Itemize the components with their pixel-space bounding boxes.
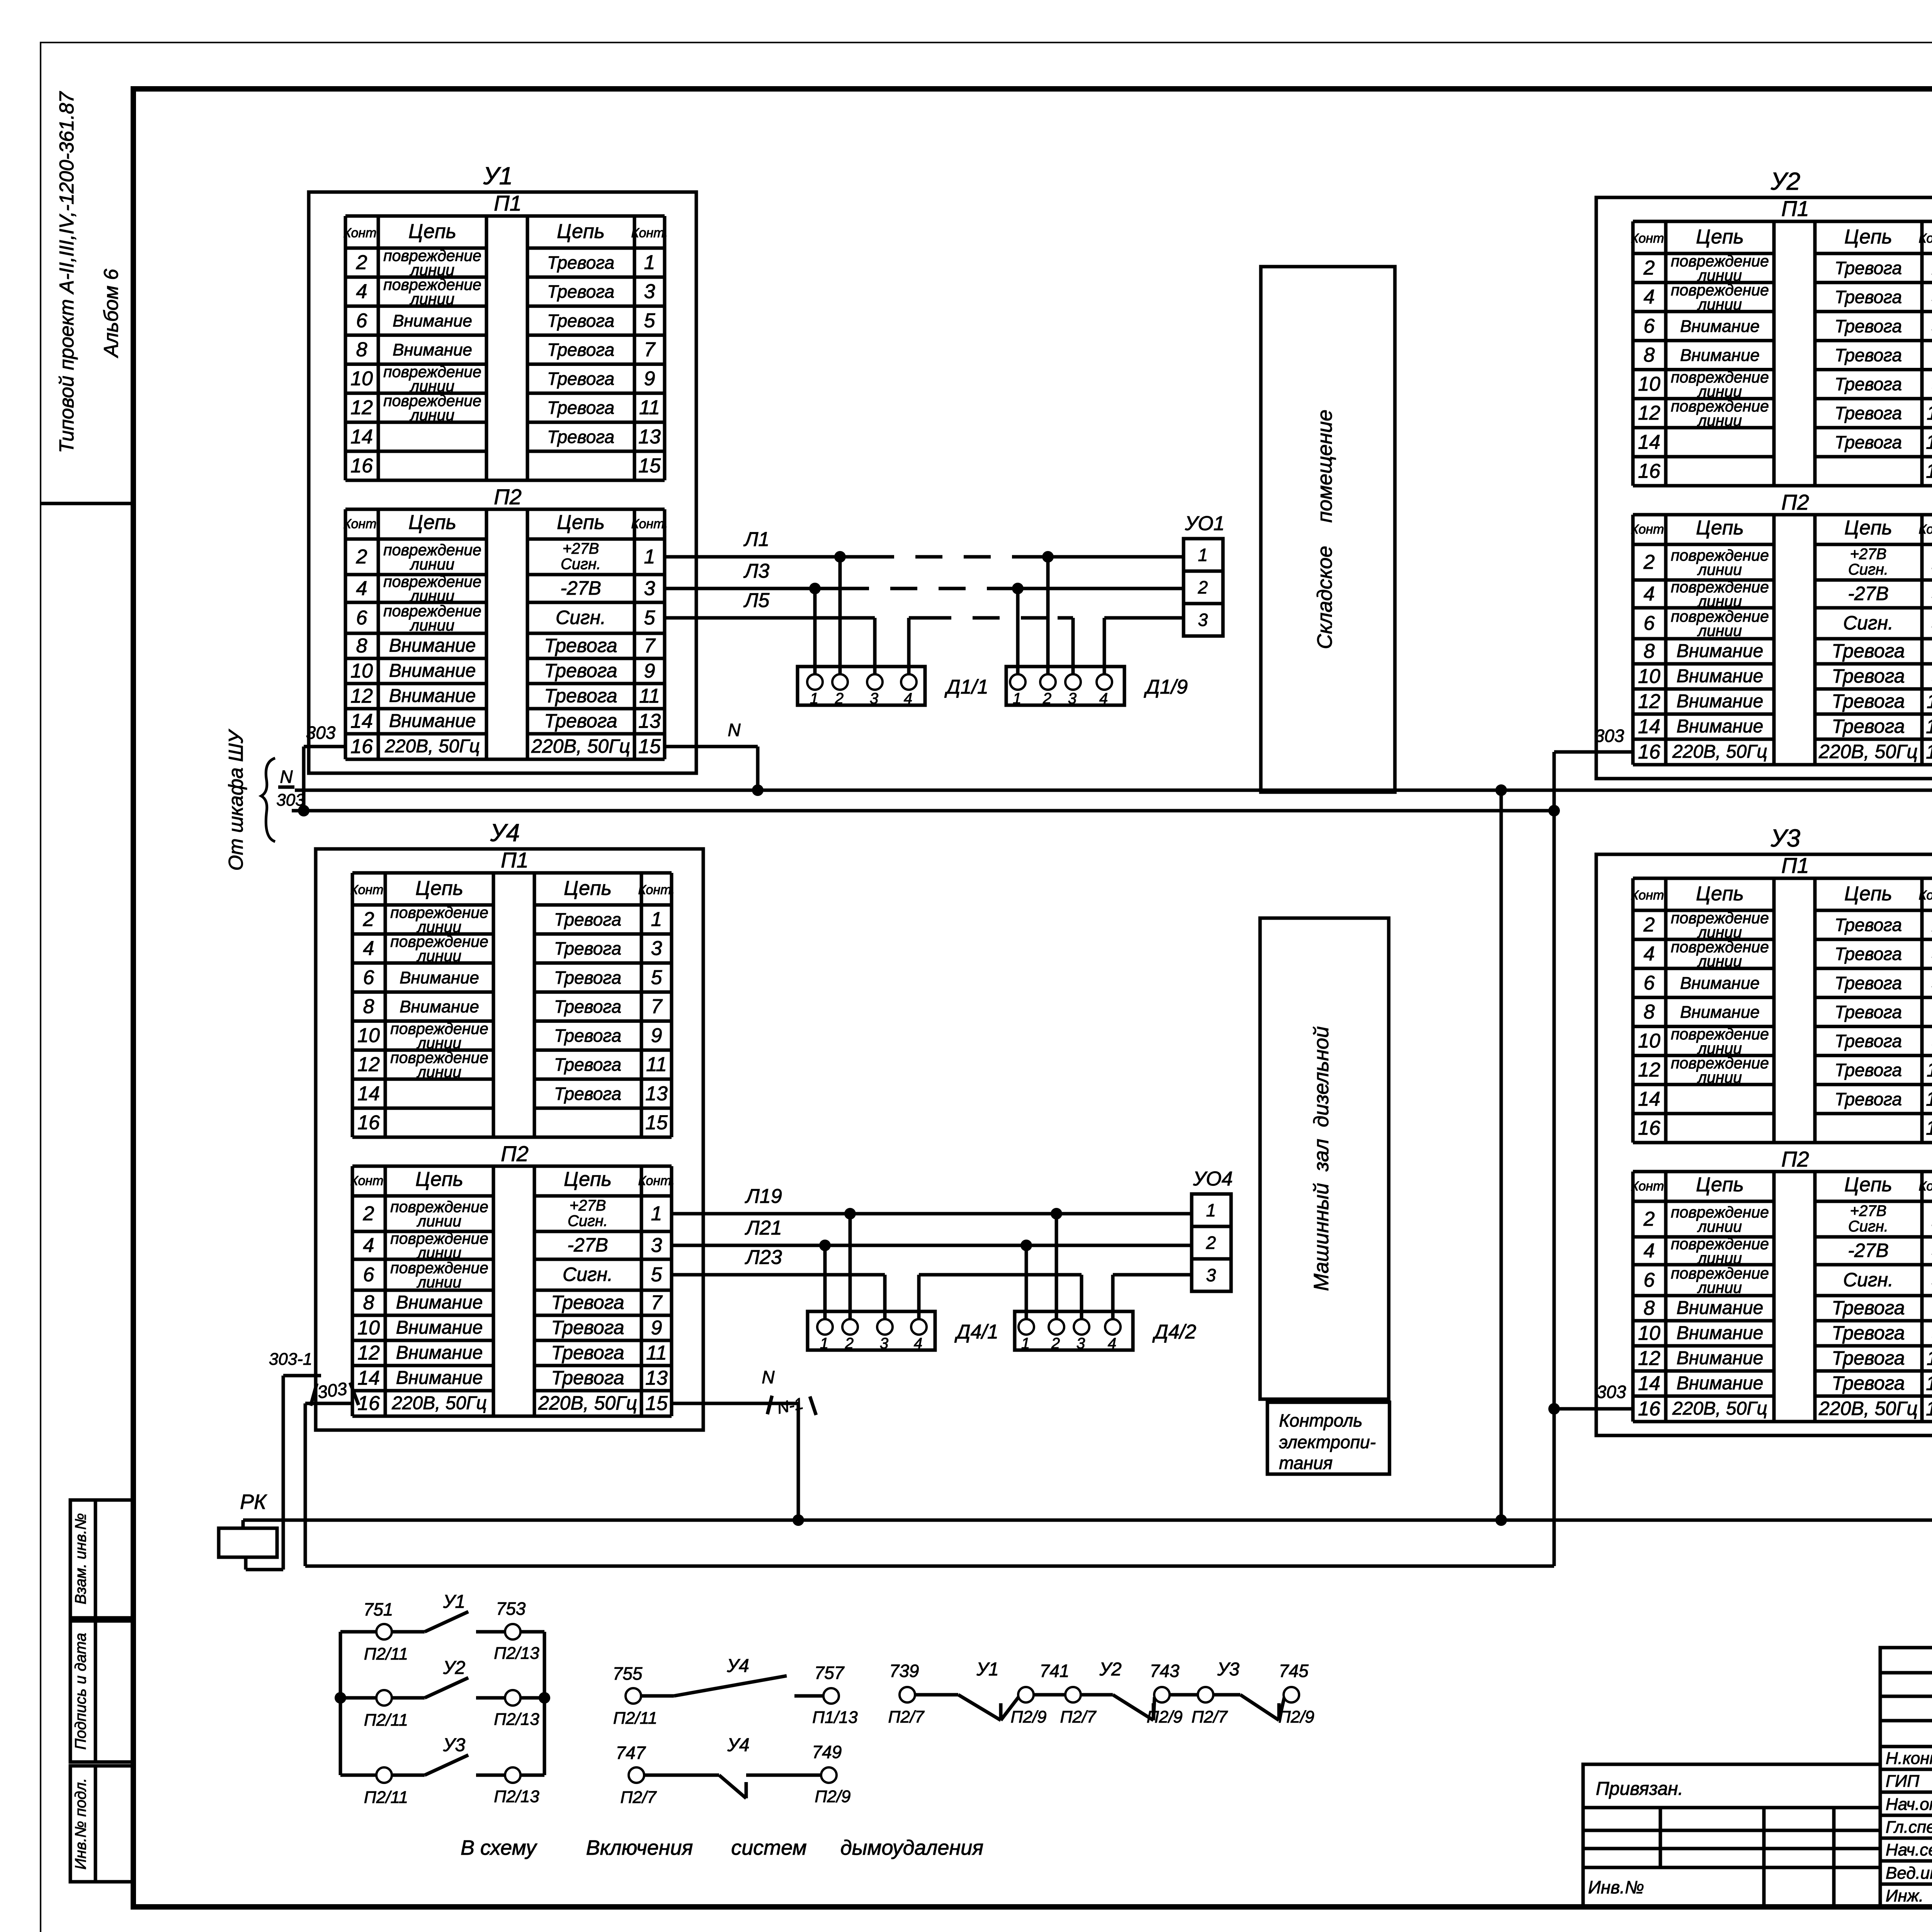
svg-text:1: 1: [651, 908, 662, 931]
svg-text:12: 12: [350, 396, 373, 419]
svg-text:6: 6: [1644, 972, 1655, 994]
svg-text:линии: линии: [1697, 296, 1742, 313]
svg-text:1: 1: [1021, 1335, 1030, 1352]
svg-text:3: 3: [644, 577, 655, 600]
unit У4 outer box: [316, 849, 703, 1430]
svg-text:Тревога: Тревога: [554, 910, 621, 930]
svg-text:линии: линии: [1697, 1218, 1742, 1235]
svg-text:15: 15: [638, 454, 661, 477]
svg-text:Цепь: Цепь: [564, 1168, 612, 1190]
svg-text:14: 14: [350, 425, 373, 448]
svg-text:13: 13: [638, 710, 661, 733]
svg-text:П2/13: П2/13: [494, 1710, 539, 1729]
svg-text:Тревога: Тревога: [1835, 915, 1902, 935]
svg-text:Тревога: Тревога: [551, 1317, 624, 1338]
svg-text:-27В: -27В: [1848, 583, 1889, 604]
svg-text:Машинный зал дизельной: Машинный зал дизельной: [1310, 1026, 1333, 1291]
svg-text:Д4/1: Д4/1: [954, 1321, 998, 1343]
svg-text:220В, 50Гц: 220В, 50Гц: [1818, 741, 1918, 762]
svg-text:П2/7: П2/7: [1060, 1708, 1097, 1726]
contact У4 747-749: [616, 1735, 851, 1807]
svg-text:303: 303: [276, 791, 305, 810]
svg-text:Тревога: Тревога: [1835, 403, 1902, 423]
wire 303 of У4: [269, 1350, 359, 1570]
svg-text:Сигн.: Сигн.: [561, 556, 601, 573]
svg-text:Тревога: Тревога: [1835, 1002, 1902, 1022]
svg-text:П2/13: П2/13: [494, 1787, 539, 1806]
connector P2 of У3: [1631, 1147, 1932, 1422]
svg-text:5: 5: [644, 607, 656, 629]
wire Л23 (pin 5) loop: [672, 1246, 1192, 1319]
svg-text:П1: П1: [494, 191, 522, 215]
svg-text:Тревога: Тревога: [547, 369, 614, 389]
svg-text:П2/7: П2/7: [620, 1788, 657, 1807]
svg-text:220В, 50Гц: 220В, 50Гц: [384, 736, 480, 757]
svg-text:Инж.: Инж.: [1886, 1886, 1923, 1905]
svg-text:11: 11: [1927, 690, 1932, 713]
svg-text:4: 4: [904, 690, 912, 707]
svg-text:3: 3: [651, 937, 662, 960]
wire Л21 (pin 3): [672, 1217, 1192, 1319]
title block: signature table: [1880, 1648, 1932, 1907]
svg-text:Внимание: Внимание: [1677, 1348, 1764, 1369]
svg-text:+27В: +27В: [570, 1197, 606, 1214]
svg-text:13: 13: [1926, 1088, 1932, 1110]
svg-text:16: 16: [1638, 1117, 1660, 1139]
svg-text:+27В: +27В: [1850, 1202, 1887, 1219]
svg-text:11: 11: [1927, 402, 1932, 424]
svg-text:линии: линии: [417, 1212, 461, 1230]
svg-text:3: 3: [651, 1234, 662, 1257]
svg-text:Внимание: Внимание: [396, 1318, 483, 1338]
svg-text:13: 13: [645, 1082, 668, 1105]
svg-text:Тревога: Тревога: [1835, 1060, 1902, 1080]
svg-text:745: 745: [1279, 1661, 1309, 1681]
svg-text:6: 6: [356, 310, 367, 332]
svg-text:Л19: Л19: [745, 1185, 782, 1207]
svg-text:Д4/2: Д4/2: [1152, 1321, 1196, 1343]
svg-text:7: 7: [651, 995, 663, 1018]
svg-text:743: 743: [1150, 1661, 1180, 1681]
svg-text:Тревога: Тревога: [1832, 1322, 1905, 1344]
wire 303 of У3: [1548, 1382, 1633, 1415]
svg-text:13: 13: [1926, 431, 1932, 453]
svg-text:Внимание: Внимание: [1680, 1003, 1760, 1022]
svg-text:Тревога: Тревога: [1832, 1297, 1905, 1319]
svg-text:Цепь: Цепь: [1696, 1173, 1744, 1196]
svg-text:Конт.: Конт.: [350, 1173, 387, 1188]
svg-text:+27В: +27В: [1850, 546, 1887, 563]
svg-text:Включения: Включения: [586, 1836, 693, 1859]
svg-text:От шкафа ШУ: От шкафа ШУ: [225, 729, 247, 871]
svg-text:4: 4: [1108, 1335, 1116, 1352]
svg-text:4: 4: [363, 1234, 374, 1257]
junction box Д1/1: [798, 667, 988, 707]
junction box Д4/1: [808, 1311, 998, 1352]
margin stamp box Подпись и дата: [70, 1621, 133, 1762]
svg-text:Внимание: Внимание: [393, 311, 472, 330]
svg-text:4: 4: [356, 577, 367, 600]
svg-text:6: 6: [1644, 315, 1655, 337]
svg-text:1: 1: [820, 1335, 828, 1352]
svg-text:Л23: Л23: [745, 1246, 782, 1269]
switch group: parallel contacts У1 У2 У3: [335, 1592, 550, 1807]
svg-text:11: 11: [1927, 1347, 1932, 1370]
svg-text:Тревога: Тревога: [1835, 258, 1902, 278]
svg-text:Тревога: Тревога: [554, 968, 621, 988]
svg-text:6: 6: [1644, 612, 1655, 634]
svg-text:П2/13: П2/13: [494, 1644, 539, 1663]
svg-text:Тревога: Тревога: [547, 398, 614, 418]
svg-text:16: 16: [1638, 1398, 1660, 1420]
svg-text:10: 10: [1638, 1030, 1660, 1052]
contact У4 755-757: [613, 1656, 858, 1728]
svg-text:9: 9: [644, 367, 655, 390]
svg-text:Тревога: Тревога: [551, 1292, 624, 1313]
wire Л19 (pin 1): [672, 1185, 1192, 1319]
svg-text:15: 15: [645, 1111, 668, 1134]
svg-text:Тревога: Тревога: [1832, 1347, 1905, 1369]
svg-text:П2: П2: [1781, 490, 1809, 514]
svg-text:N: N: [280, 767, 293, 787]
svg-text:Цепь: Цепь: [1844, 1173, 1892, 1196]
svg-text:14: 14: [1638, 1372, 1660, 1395]
svg-text:электропи-: электропи-: [1279, 1432, 1376, 1452]
svg-text:8: 8: [356, 635, 367, 657]
svg-text:У2: У2: [443, 1658, 465, 1678]
svg-text:У4: У4: [490, 819, 520, 847]
svg-text:Сигн.: Сигн.: [563, 1264, 613, 1285]
svg-text:П2/9: П2/9: [815, 1787, 850, 1806]
svg-text:Тревога: Тревога: [1832, 716, 1905, 737]
svg-text:755: 755: [613, 1663, 643, 1684]
svg-text:303-1: 303-1: [269, 1350, 313, 1369]
wire N of У1: [665, 720, 764, 796]
svg-text:Тревога: Тревога: [554, 939, 621, 959]
svg-text:Сигн.: Сигн.: [1843, 1269, 1893, 1291]
svg-text:Тревога: Тревога: [544, 660, 617, 682]
svg-text:6: 6: [363, 966, 374, 989]
svg-text:+27В: +27В: [563, 540, 599, 557]
connector P2 of У1: [343, 485, 668, 759]
wire Л3 (pin 3): [665, 560, 1184, 674]
svg-text:Конт.: Конт.: [1631, 1179, 1667, 1194]
svg-text:Конт.: Конт.: [1918, 1179, 1932, 1194]
contact У2: [376, 1690, 392, 1706]
svg-text:Тревога: Тревога: [551, 1342, 624, 1364]
svg-text:2: 2: [363, 1202, 374, 1225]
svg-text:Внимание: Внимание: [1677, 691, 1764, 712]
contact У3: [376, 1767, 392, 1783]
svg-text:Внимание: Внимание: [1677, 1323, 1764, 1344]
svg-text:15: 15: [1926, 741, 1932, 763]
contact У1 751-753: [376, 1624, 392, 1639]
svg-text:2: 2: [1051, 1335, 1060, 1352]
svg-text:Цепь: Цепь: [1696, 517, 1744, 539]
vertical N drop to lower run: [1495, 784, 1507, 1526]
svg-text:линии: линии: [1697, 1279, 1742, 1296]
svg-text:Конт.: Конт.: [638, 883, 675, 897]
svg-text:Внимание: Внимание: [389, 686, 476, 706]
svg-text:6: 6: [363, 1264, 374, 1286]
svg-text:Конт.: Конт.: [1631, 888, 1667, 903]
svg-text:Внимание: Внимание: [389, 636, 476, 656]
svg-text:У3: У3: [443, 1735, 466, 1755]
svg-text:Тревога: Тревога: [1832, 1372, 1905, 1394]
svg-text:Сигн.: Сигн.: [1848, 1218, 1888, 1235]
svg-text:12: 12: [350, 685, 373, 707]
svg-text:П2/9: П2/9: [1010, 1708, 1046, 1726]
svg-text:Типовой проект А-II,III,IV,-1: Типовой проект А-II,III,IV,-1200-361.87: [56, 91, 78, 453]
svg-text:751: 751: [364, 1599, 393, 1619]
svg-text:Цепь: Цепь: [557, 220, 605, 243]
svg-text:2: 2: [356, 252, 367, 274]
svg-text:линии: линии: [410, 616, 454, 634]
svg-text:2: 2: [1643, 551, 1655, 573]
svg-text:Конт.: Конт.: [631, 517, 668, 531]
svg-text:Тревога: Тревога: [1835, 374, 1902, 394]
svg-text:В схему: В схему: [461, 1836, 537, 1859]
svg-text:303: 303: [316, 1378, 349, 1402]
svg-text:16: 16: [1638, 741, 1660, 763]
svg-text:4: 4: [1644, 286, 1655, 308]
svg-text:4: 4: [1099, 690, 1108, 707]
connector P1 of У2: [1631, 196, 1932, 486]
title block: annex (Привязан / Инв.№): [1583, 1764, 1880, 1907]
svg-text:7: 7: [651, 1292, 663, 1314]
svg-text:12: 12: [1638, 402, 1660, 424]
svg-text:РК: РК: [240, 1490, 267, 1514]
svg-text:741: 741: [1040, 1661, 1070, 1681]
junction box Д4/2: [1015, 1311, 1196, 1352]
svg-text:Тревога: Тревога: [1835, 1031, 1902, 1051]
svg-text:4: 4: [363, 937, 374, 960]
svg-text:749: 749: [812, 1742, 842, 1762]
svg-text:220В, 50Гц: 220В, 50Гц: [538, 1392, 637, 1414]
svg-text:Внимание: Внимание: [1677, 641, 1764, 662]
wire N of У4: [672, 1367, 816, 1520]
svg-text:4: 4: [1644, 1240, 1655, 1262]
svg-text:Сигн.: Сигн.: [1848, 561, 1888, 578]
svg-text:7: 7: [644, 635, 656, 657]
svg-text:8: 8: [1644, 344, 1655, 366]
svg-text:У1: У1: [483, 162, 513, 190]
unit У3 outer box: [1596, 854, 1932, 1435]
svg-text:3: 3: [1206, 1265, 1216, 1285]
svg-text:4: 4: [1644, 583, 1655, 605]
svg-text:12: 12: [1638, 690, 1660, 713]
vertical 303 run (У2/У3): [1548, 752, 1560, 1566]
svg-text:12: 12: [1638, 1059, 1660, 1081]
unit У1 outer box: [309, 192, 696, 773]
svg-text:6: 6: [1644, 1269, 1655, 1291]
margin stamp box Инв.№ подл.: [70, 1766, 133, 1882]
svg-text:Альбом 6: Альбом 6: [100, 269, 122, 359]
svg-text:УО4: УО4: [1193, 1168, 1233, 1190]
room box: storage near У1: [1261, 267, 1395, 792]
svg-text:Цепь: Цепь: [408, 220, 456, 243]
svg-text:3: 3: [644, 281, 655, 303]
svg-text:Тревога: Тревога: [1832, 690, 1905, 712]
svg-text:8: 8: [1644, 640, 1655, 663]
svg-text:9: 9: [651, 1024, 662, 1047]
wire Л5 (pin 5) loop: [665, 589, 1184, 674]
svg-text:Контроль: Контроль: [1279, 1410, 1362, 1430]
caption: smoke removal systems: [461, 1836, 983, 1859]
svg-text:Цепь: Цепь: [1844, 517, 1892, 539]
svg-text:2: 2: [1643, 1208, 1655, 1230]
svg-text:16: 16: [357, 1111, 380, 1134]
svg-text:Тревога: Тревога: [1835, 316, 1902, 336]
svg-text:10: 10: [1638, 373, 1660, 395]
svg-text:Конт.: Конт.: [631, 226, 668, 240]
svg-text:линии: линии: [1697, 622, 1742, 639]
svg-text:линии: линии: [417, 1063, 461, 1081]
svg-text:Взам. инв.№: Взам. инв.№: [72, 1513, 89, 1604]
svg-text:8: 8: [356, 338, 367, 361]
svg-text:220В, 50Гц: 220В, 50Гц: [391, 1393, 487, 1413]
svg-text:П2/9: П2/9: [1146, 1708, 1182, 1726]
svg-text:Сигн.: Сигн.: [1843, 612, 1893, 634]
lower N horizontal run: [243, 1514, 1932, 1526]
svg-text:3: 3: [1068, 690, 1077, 707]
wire 303 of У1: [298, 723, 345, 816]
svg-text:Цепь: Цепь: [557, 511, 605, 534]
svg-text:Внимание: Внимание: [396, 1343, 483, 1363]
svg-text:Тревога: Тревога: [547, 311, 614, 331]
svg-text:П1/13: П1/13: [812, 1708, 858, 1727]
svg-text:12: 12: [357, 1342, 380, 1364]
margin stamp box Взам. инв.№: [70, 1500, 133, 1618]
svg-text:7: 7: [644, 338, 656, 361]
svg-text:753: 753: [496, 1599, 526, 1619]
svg-text:8: 8: [363, 995, 374, 1018]
svg-text:У1: У1: [443, 1592, 465, 1612]
svg-text:8: 8: [1644, 1297, 1655, 1320]
svg-text:П2/11: П2/11: [364, 1645, 408, 1663]
svg-text:N: N: [762, 1367, 775, 1387]
svg-text:Тревога: Тревога: [554, 1083, 621, 1104]
svg-text:У1: У1: [976, 1659, 998, 1680]
svg-text:Конт.: Конт.: [1631, 522, 1667, 537]
connector P1 of У4: [350, 848, 675, 1137]
svg-text:11: 11: [1927, 1059, 1932, 1081]
svg-text:П1: П1: [501, 848, 529, 872]
svg-text:Нач.отд.: Нач.отд.: [1886, 1795, 1932, 1814]
connector P1 of У3: [1631, 853, 1932, 1143]
svg-text:УО1: УО1: [1185, 512, 1225, 535]
box: power supply monitoring: [1267, 1402, 1389, 1474]
svg-text:1: 1: [1198, 545, 1208, 565]
svg-text:Тревога: Тревога: [1835, 1089, 1902, 1109]
svg-text:Инв.№: Инв.№: [1588, 1877, 1644, 1897]
svg-text:Тревога: Тревога: [1835, 345, 1902, 365]
svg-text:Конт.: Конт.: [638, 1173, 675, 1188]
svg-text:П2: П2: [501, 1141, 529, 1166]
svg-text:4: 4: [914, 1335, 922, 1352]
svg-text:Конт.: Конт.: [1918, 231, 1932, 246]
svg-text:Тревога: Тревога: [547, 282, 614, 302]
svg-text:4: 4: [1644, 943, 1655, 965]
connector P2 of У2: [1631, 490, 1932, 765]
svg-text:14: 14: [1638, 1088, 1660, 1110]
wire Л1 (pin 1): [665, 528, 1184, 674]
left margin divider: [41, 502, 133, 505]
svg-text:Тревога: Тревога: [544, 685, 617, 707]
svg-text:2: 2: [1206, 1233, 1216, 1253]
svg-text:3: 3: [1198, 610, 1208, 630]
connector P2 of У4: [350, 1141, 675, 1416]
junction box РК: [219, 1490, 277, 1557]
lower 303 horizontal run: [305, 1565, 1554, 1568]
svg-text:4: 4: [356, 281, 367, 303]
svg-text:N: N: [728, 720, 741, 740]
svg-text:12: 12: [1638, 1347, 1660, 1370]
svg-text:-27В: -27В: [560, 577, 601, 599]
svg-text:220В, 50Гц: 220В, 50Гц: [1672, 1398, 1767, 1419]
unit У2 outer box: [1596, 197, 1932, 779]
303 bus from cabinet ШУ: [276, 791, 1554, 811]
303-1 link to РК: [246, 1557, 283, 1570]
svg-text:16: 16: [350, 735, 373, 758]
svg-text:Л21: Л21: [745, 1217, 782, 1239]
svg-text:У4: У4: [727, 1735, 749, 1755]
svg-text:линии: линии: [1697, 1068, 1742, 1086]
svg-text:15: 15: [1926, 1398, 1932, 1420]
svg-text:Л5: Л5: [743, 589, 770, 612]
svg-text:Привязан.: Привязан.: [1596, 1779, 1683, 1799]
svg-text:1: 1: [644, 546, 655, 568]
svg-text:9: 9: [644, 660, 655, 682]
svg-text:10: 10: [1638, 665, 1660, 688]
svg-text:10: 10: [357, 1317, 380, 1339]
svg-text:2: 2: [835, 690, 844, 707]
svg-text:757: 757: [815, 1663, 845, 1683]
svg-text:11: 11: [646, 1342, 667, 1364]
svg-text:линии: линии: [417, 1273, 461, 1291]
svg-text:-27В: -27В: [1848, 1240, 1889, 1261]
series chain 739..745: [888, 1659, 1314, 1726]
svg-text:1: 1: [1013, 690, 1021, 707]
svg-text:Д1/9: Д1/9: [1144, 676, 1188, 698]
svg-text:3: 3: [880, 1335, 888, 1352]
svg-text:5: 5: [651, 966, 663, 989]
svg-text:линии: линии: [1697, 412, 1742, 429]
svg-text:Цепь: Цепь: [415, 1168, 463, 1190]
svg-text:Л1: Л1: [743, 528, 770, 551]
svg-text:У3: У3: [1217, 1659, 1240, 1680]
svg-text:У2: У2: [1770, 167, 1801, 195]
svg-text:10: 10: [350, 367, 373, 390]
svg-text:303: 303: [306, 723, 336, 743]
svg-text:16: 16: [1638, 460, 1660, 482]
svg-text:1: 1: [1206, 1200, 1216, 1220]
svg-text:Конт.: Конт.: [1918, 522, 1932, 537]
svg-text:Тревога: Тревога: [1832, 640, 1905, 662]
svg-text:6: 6: [356, 607, 367, 629]
svg-text:Внимание: Внимание: [1677, 1298, 1764, 1318]
svg-text:14: 14: [350, 710, 373, 733]
svg-text:Цепь: Цепь: [415, 877, 463, 900]
svg-text:15: 15: [638, 735, 661, 758]
svg-text:Конт.: Конт.: [343, 226, 380, 240]
N bus from cabinet ШУ: [278, 767, 1932, 790]
svg-text:линии: линии: [410, 290, 454, 308]
svg-text:Тревога: Тревога: [1835, 432, 1902, 452]
svg-text:П2/11: П2/11: [364, 1711, 408, 1730]
svg-text:Сигн.: Сигн.: [556, 607, 606, 628]
svg-text:П1: П1: [1781, 853, 1809, 878]
